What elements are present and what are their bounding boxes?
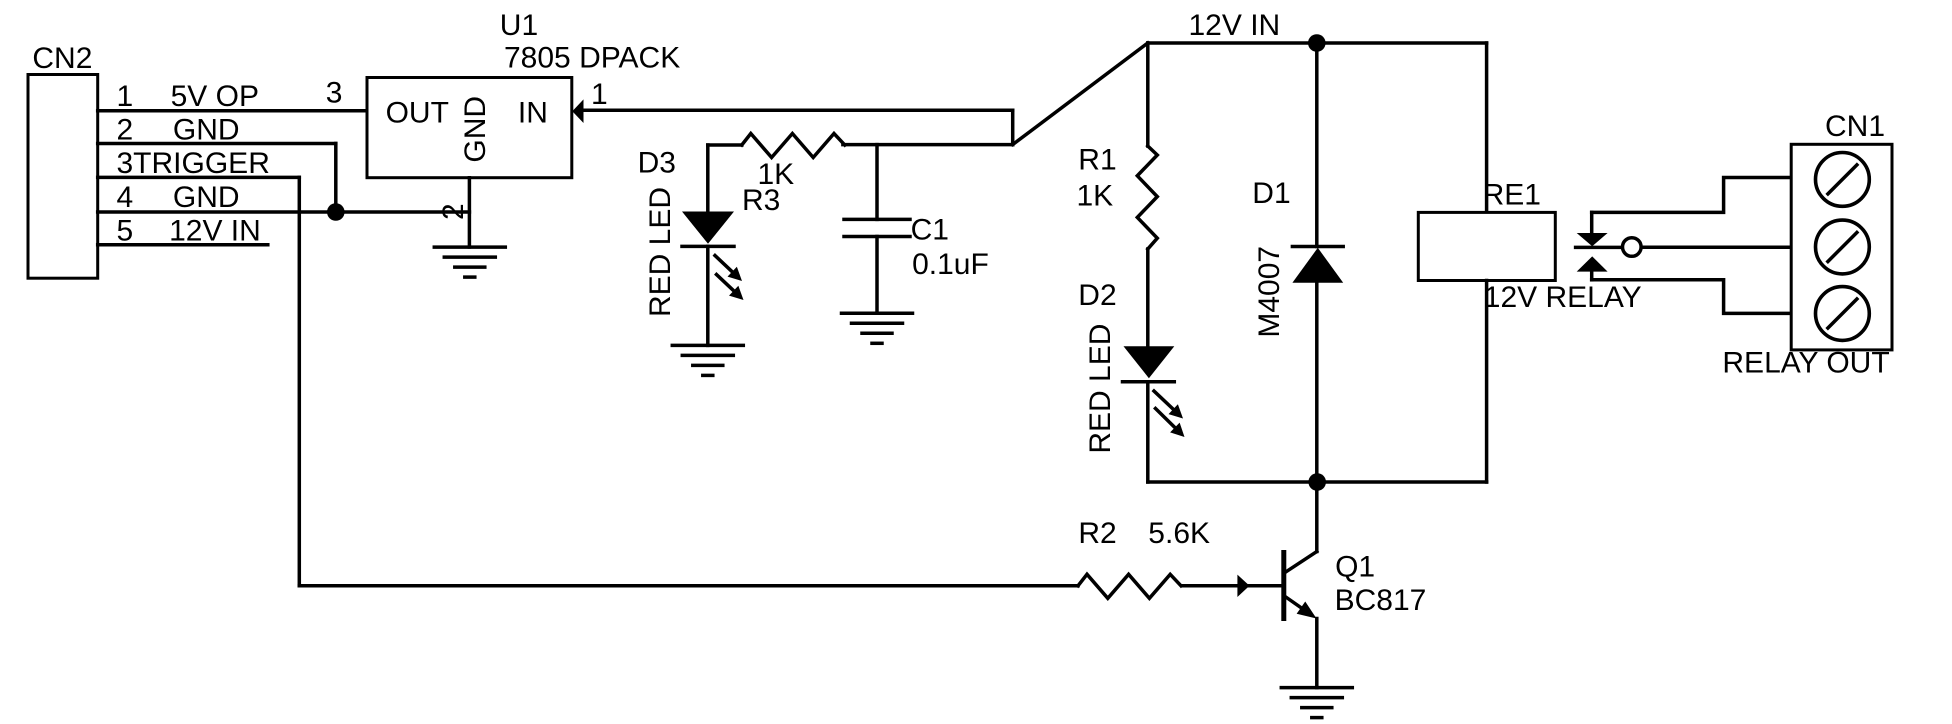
svg-text:12V RELAY: 12V RELAY [1484,281,1642,314]
capacitor C1 top plate [844,218,910,222]
svg-text:CN1: CN1 [1825,110,1885,143]
svg-text:C1: C1 [911,214,949,247]
wire CN2 pin1 to U1 OUT [98,109,367,113]
ground under U1 [434,245,505,249]
svg-text:GND: GND [173,114,240,147]
svg-text:RED LED: RED LED [644,187,677,317]
svg-text:OUT: OUT [386,96,449,129]
svg-text:RED LED: RED LED [1084,324,1117,454]
wire CN2 pin3 TRIGGER horizontal [98,176,300,180]
svg-text:R2: R2 [1078,517,1116,550]
regulator U1 body [367,78,572,178]
LED D3 light arrow 1 [715,256,732,272]
svg-text:1K: 1K [1077,180,1114,213]
svg-text:7805 DPACK: 7805 DPACK [504,41,680,74]
LED D2 cathode bar [1123,380,1175,384]
svg-text:U1: U1 [500,9,538,42]
CN1 screw terminal 1 [1816,153,1870,207]
wire CN2 pin2 down to GND net [334,144,338,213]
junction GND net [327,203,345,221]
LED D2 light arrow 2 [1156,409,1175,428]
LED D2 triangle [1124,346,1175,378]
svg-text:12V IN: 12V IN [169,215,261,248]
capacitor C1 bottom plate [844,235,910,239]
wire contact NO to CN1 pin3 [1592,280,1792,314]
svg-text:Q1: Q1 [1335,551,1375,584]
svg-text:2: 2 [117,114,134,147]
svg-text:1: 1 [117,80,134,113]
Q1 base arrow [1237,575,1249,597]
wire D2 cathode down to node [1146,382,1150,482]
svg-text:0.1uF: 0.1uF [912,248,989,281]
wire RE1 down to node [1485,281,1489,483]
CN1 screw terminal 2 [1816,220,1870,274]
relay contact bar [1576,246,1622,250]
wire rail down to R1 [1146,43,1150,146]
svg-text:BC817: BC817 [1335,584,1427,617]
wire TRIGGER bottom run to R2 [299,584,1078,588]
wire C1 bottom plate to ground [875,237,879,314]
wire corner vertical [1011,110,1015,144]
transistor Q1 base bar [1281,553,1286,619]
wire U1 IN to corner [583,109,1013,113]
wire TRIGGER vertical down [298,177,302,585]
svg-text:5.6K: 5.6K [1148,517,1210,550]
wire collector down from node [1315,482,1319,552]
relay contact NO triangle [1577,256,1608,271]
svg-text:M4007: M4007 [1253,246,1286,338]
relay contact NC triangle [1577,233,1608,246]
svg-text:D3: D3 [638,147,676,180]
svg-text:2: 2 [437,203,470,220]
relay coil RE1 body [1418,212,1555,280]
wire D3 anode to R3 [708,143,742,147]
wire contact common to CN1 pin2 [1642,245,1792,249]
svg-text:12V IN: 12V IN [1189,9,1281,42]
wire 12V rail [1148,41,1487,45]
svg-text:R3: R3 [742,184,780,217]
LED D3 triangle [682,212,734,244]
wire D3 cathode to ground [706,246,710,345]
wire R2 to Q1 base [1182,584,1281,588]
svg-text:GND: GND [173,181,240,214]
wire contact NC to CN1 pin1 [1592,178,1792,213]
diode D1 cathode bar [1292,245,1343,249]
wire R3 down to D3 [706,145,710,212]
wire rail down to D1 cathode [1315,43,1319,247]
U1 pin1 input arrow [572,99,583,123]
svg-text:R1: R1 [1078,144,1116,177]
relay contact common pole circle [1623,238,1642,257]
ground under Q1 [1281,686,1352,690]
wire GND net (pin4) to U1 pin2 [98,210,470,214]
svg-text:5: 5 [117,215,134,248]
svg-text:1: 1 [591,78,608,111]
wire R3 to C1 node and corner [843,143,1013,147]
wire R1 to D2 [1146,249,1150,346]
svg-text:D2: D2 [1078,279,1116,312]
wire CN2 pin5 stub [98,243,268,247]
wire diagonal up to 12V rail [1013,43,1148,145]
junction collector node [1308,473,1326,491]
diode D1 triangle [1292,248,1343,283]
svg-text:4: 4 [117,181,134,214]
resistor R3 [742,134,845,158]
Q1 emitter diagonal [1287,598,1306,612]
resistor R1 [1137,146,1157,249]
svg-text:RE1: RE1 [1483,179,1541,212]
svg-text:D1: D1 [1252,177,1290,210]
ground under C1 [842,312,913,316]
U1 pin 2 stub [468,178,472,247]
LED D2 light arrow 1 [1154,391,1173,409]
svg-text:3TRIGGER: 3TRIGGER [117,147,270,180]
connector CN2 body [28,75,98,279]
wire rail down to RE1 [1485,43,1489,212]
wire D1 anode down to node [1315,283,1319,482]
svg-text:IN: IN [518,96,548,129]
wire CN2 pin2 horizontal [98,142,336,146]
svg-text:GND: GND [459,96,492,163]
Q1 collector diagonal [1287,552,1317,572]
wire node to C1 top plate [875,145,879,220]
Q1 emitter arrow [1297,601,1317,618]
resistor R2 [1078,574,1181,598]
CN1 screw terminal 3 [1816,287,1870,341]
svg-text:RELAY OUT: RELAY OUT [1722,347,1889,380]
connector CN1 body [1791,144,1892,350]
LED D3 cathode bar [682,245,734,249]
wire collector node horizontal [1148,480,1487,484]
relay contact NO arm vertical [1590,272,1594,280]
svg-text:5V OP: 5V OP [171,80,259,113]
junction 12V rail / D1 [1308,34,1326,52]
LED D3 light arrow 2 [717,275,734,291]
relay contact NC arm vertical [1590,212,1594,233]
svg-text:CN2: CN2 [32,42,92,75]
ground under D3 [672,344,743,348]
svg-text:3: 3 [326,77,343,110]
wire emitter to ground [1315,619,1319,688]
